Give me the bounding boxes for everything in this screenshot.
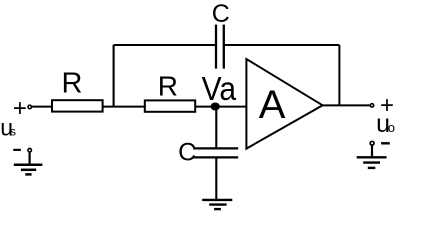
svg-text:o: o bbox=[388, 120, 395, 135]
minus polarity mark bbox=[381, 142, 390, 144]
wire: R1 to R2 bbox=[103, 106, 146, 108]
wire: op-amp output bbox=[323, 104, 370, 106]
wire: R2 to op-amp input bbox=[195, 106, 246, 108]
svg-text:R: R bbox=[62, 68, 83, 100]
ground (bottom, under C2) bbox=[202, 200, 232, 209]
wire: top feedback, right segment bbox=[224, 44, 340, 46]
svg-text:s: s bbox=[10, 125, 16, 139]
minus polarity mark bbox=[13, 149, 21, 151]
wire: node Va down to C2 bbox=[215, 107, 217, 149]
ground bars bbox=[357, 156, 387, 158]
wire: feedback tap vertical (junction to top wire) bbox=[113, 45, 115, 107]
terminal circle bbox=[370, 141, 374, 145]
terminal circle bbox=[28, 148, 32, 152]
op-amp A (triangle) bbox=[246, 59, 322, 149]
label us bbox=[0, 115, 16, 141]
label uo bbox=[376, 110, 395, 138]
ground bars bbox=[14, 164, 43, 167]
wire stub bbox=[371, 146, 373, 158]
svg-text:+: + bbox=[13, 95, 27, 122]
wire stub bbox=[29, 152, 31, 165]
svg-text:R: R bbox=[158, 70, 178, 101]
resistor R1 bbox=[52, 100, 103, 111]
capacitor C1 (feedback) bbox=[216, 25, 224, 69]
wire: top feedback, left segment bbox=[114, 44, 216, 46]
capacitor C2 (node to ground) bbox=[193, 148, 238, 157]
svg-text:A: A bbox=[259, 83, 286, 127]
wire: C2 to ground bbox=[215, 157, 217, 200]
svg-text:Va: Va bbox=[202, 70, 237, 107]
svg-text:C: C bbox=[212, 0, 230, 28]
resistor R2 bbox=[145, 100, 195, 111]
output terminal node bbox=[370, 104, 373, 107]
wire: feedback right vertical down to output bbox=[338, 45, 340, 106]
node Va junction dot bbox=[211, 103, 220, 111]
ground (right, output return) bbox=[357, 141, 390, 168]
wire: input terminal to R1 bbox=[32, 106, 52, 108]
input terminal node bbox=[28, 105, 32, 109]
svg-text:C: C bbox=[178, 139, 196, 167]
ground (left, source return) bbox=[13, 148, 42, 174]
